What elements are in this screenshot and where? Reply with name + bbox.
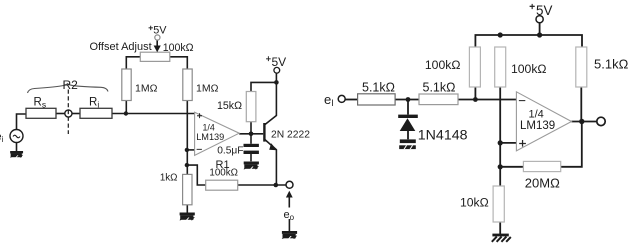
svg-text:LM139: LM139 bbox=[520, 120, 555, 132]
svg-text:0.5μF: 0.5μF bbox=[217, 146, 243, 157]
svg-text:5V: 5V bbox=[153, 25, 167, 37]
svg-text:1kΩ: 1kΩ bbox=[160, 173, 178, 184]
svg-text:5V: 5V bbox=[536, 3, 552, 18]
svg-text:LM139: LM139 bbox=[196, 132, 224, 142]
svg-text:100kΩ: 100kΩ bbox=[163, 42, 194, 54]
svg-text:–: – bbox=[197, 144, 202, 154]
svg-text:1/4: 1/4 bbox=[529, 109, 544, 121]
svg-text:100kΩ: 100kΩ bbox=[511, 62, 547, 76]
svg-text:15kΩ: 15kΩ bbox=[217, 100, 242, 112]
svg-text:+: + bbox=[519, 136, 527, 151]
svg-text:+: + bbox=[529, 2, 535, 13]
svg-text:5.1kΩ: 5.1kΩ bbox=[594, 57, 629, 72]
svg-text:R2: R2 bbox=[63, 78, 79, 92]
svg-text:1/4: 1/4 bbox=[203, 123, 215, 133]
svg-text:+: + bbox=[266, 54, 271, 64]
svg-text:2N 2222: 2N 2222 bbox=[271, 130, 310, 141]
svg-text:1N4148: 1N4148 bbox=[418, 127, 468, 143]
svg-text:5.1kΩ: 5.1kΩ bbox=[423, 81, 456, 95]
svg-text:10kΩ: 10kΩ bbox=[460, 196, 489, 210]
svg-text:20MΩ: 20MΩ bbox=[525, 176, 560, 191]
svg-text:100kΩ: 100kΩ bbox=[209, 168, 238, 179]
svg-text:Offset Adjust: Offset Adjust bbox=[90, 41, 152, 53]
svg-text:5V: 5V bbox=[272, 55, 287, 69]
svg-text:1MΩ: 1MΩ bbox=[135, 83, 158, 95]
svg-text:–: – bbox=[519, 95, 526, 107]
svg-text:+: + bbox=[197, 111, 203, 122]
svg-text:1MΩ: 1MΩ bbox=[196, 83, 219, 95]
svg-text:100kΩ: 100kΩ bbox=[425, 58, 461, 72]
svg-text:5.1kΩ: 5.1kΩ bbox=[362, 81, 395, 95]
